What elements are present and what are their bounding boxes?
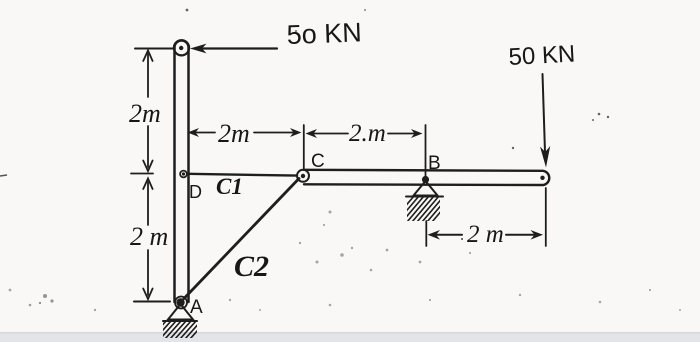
bottom scan band <box>0 333 700 342</box>
extension below right end <box>545 188 547 246</box>
bottom extension tick at A <box>134 301 170 303</box>
support B ground line <box>406 196 443 198</box>
left dimension lower 2m <box>147 182 149 225</box>
beam capsule C to right end <box>304 170 549 185</box>
top dimension C-B 2m <box>310 133 348 135</box>
beam end dot <box>540 176 544 180</box>
svg-text:A: A <box>190 297 203 318</box>
extension below B <box>425 221 427 246</box>
svg-text:B: B <box>428 153 441 174</box>
svg-text:D: D <box>189 182 202 202</box>
member C1 (D to C) <box>188 174 297 176</box>
svg-text:C: C <box>311 151 325 172</box>
node C <box>297 170 309 182</box>
extension line at C <box>303 125 305 170</box>
support B triangle <box>414 181 438 196</box>
node A <box>175 297 187 309</box>
svg-text:5o KN: 5o KN <box>286 17 362 50</box>
node B <box>422 176 429 183</box>
scan speckles <box>186 9 610 240</box>
member AD column capsule <box>175 41 189 303</box>
left edge scratch <box>0 175 7 176</box>
top extension tick <box>135 48 174 50</box>
svg-text:2.m: 2.m <box>349 120 386 147</box>
bottom dimension B-E 2m <box>432 234 462 236</box>
support A ground line <box>163 320 197 322</box>
svg-text:C2: C2 <box>234 250 269 283</box>
support A hatching <box>150 321 206 339</box>
extension line at B <box>425 125 427 177</box>
svg-text:C1: C1 <box>216 174 243 199</box>
svg-text:2m: 2m <box>218 119 250 148</box>
mid extension tick at D <box>131 173 153 175</box>
pin node top <box>174 40 189 55</box>
left dimension upper 2m <box>147 54 149 97</box>
support B hatching <box>392 196 454 222</box>
svg-text:2m: 2m <box>129 99 161 128</box>
member C2 (A to C) <box>184 179 299 299</box>
node D <box>180 171 187 178</box>
svg-text:2 m: 2 m <box>130 222 168 251</box>
load arrow 50 KN top <box>200 47 277 49</box>
svg-text:2 m: 2 m <box>467 221 504 248</box>
top dimension D-C 2m <box>193 132 215 134</box>
support A triangle <box>168 304 193 320</box>
svg-text:50 KN: 50 KN <box>508 41 576 71</box>
load arrow 50 KN right <box>543 74 546 152</box>
